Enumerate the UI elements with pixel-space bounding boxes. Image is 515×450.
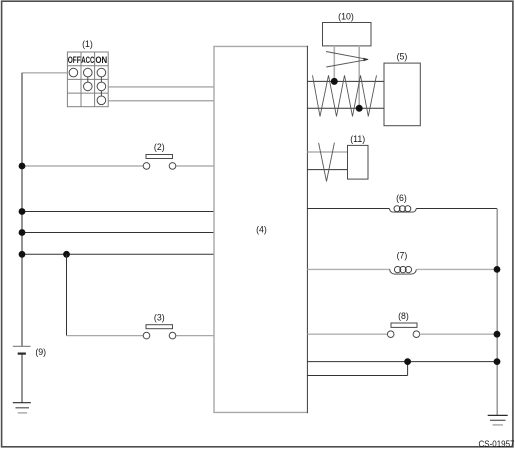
wire bus to unit (4) row 3 — [22, 232, 214, 234]
wire switch (3) to unit (4) — [176, 335, 214, 337]
svg-text:(7): (7) — [397, 251, 408, 261]
blower resistor zigzag element — [313, 75, 377, 116]
junction dot resistor tap 1 — [331, 78, 338, 85]
wire bus to switch (2) — [22, 165, 143, 167]
wire right bus vertical — [496, 209, 498, 416]
junction dot bus row4 — [19, 251, 26, 258]
svg-text:ON: ON — [95, 55, 107, 65]
wire switch (2) to unit (4) — [176, 165, 214, 167]
wire switch (8) to right bus — [420, 333, 497, 335]
wire unit (4) to resistor (11) bottom — [307, 169, 347, 171]
wire branch to switch (3) contact — [67, 335, 144, 337]
thermal fuse zigzag arrow — [326, 52, 368, 68]
ignition switch contact circles — [69, 68, 106, 104]
resistor (11) zigzag V — [319, 143, 335, 182]
svg-text:OFF: OFF — [68, 55, 81, 65]
svg-text:(9): (9) — [35, 347, 46, 357]
wire bus to unit (4) row 4 — [22, 253, 214, 255]
wire unit (4) to blower resistor top — [307, 80, 384, 82]
junction dot resistor tap 2 — [356, 105, 363, 112]
switch SW3 (3) actuator bar — [146, 325, 173, 329]
svg-text:(5): (5) — [397, 52, 408, 62]
wire from ignition switch to left bus — [22, 72, 68, 74]
svg-text:(3): (3) — [154, 313, 165, 323]
switch SW8 (8) contacts — [387, 331, 394, 338]
svg-text:(4): (4) — [256, 225, 267, 235]
junction dot bus row2 — [19, 208, 26, 215]
switch SW8 (8) actuator bar — [391, 323, 417, 327]
junction dot bus lower — [494, 358, 501, 365]
svg-text:(1): (1) — [82, 39, 93, 49]
control unit U1 (4) — [213, 46, 215, 412]
junction dot bus row3 — [19, 229, 26, 236]
switch SW2 (2) contacts — [143, 163, 150, 170]
switch SW3 (3) contacts — [143, 332, 150, 339]
wire unit (4) to blower resistor bottom — [307, 107, 384, 109]
wire unit (4) bottom stub — [307, 375, 407, 377]
wire unit (4) to switch (8) — [307, 333, 387, 335]
wire coil (6) to right bus — [416, 208, 497, 210]
svg-text:(11): (11) — [350, 134, 365, 144]
wire ignition ACC to unit (4) — [108, 86, 214, 88]
battery (9) negative plate — [18, 353, 26, 355]
ignition switch contact connectors — [88, 77, 102, 96]
svg-text:(2): (2) — [154, 142, 165, 152]
svg-text:CS-01957: CS-01957 — [479, 439, 515, 449]
wire unit (4) to resistor (11) top — [307, 151, 347, 153]
resistor box (11) — [348, 145, 369, 179]
relay box (10) — [323, 23, 372, 46]
ignition switch SW1 (1) table grid — [67, 52, 108, 107]
svg-text:(6): (6) — [396, 193, 407, 203]
ground battery — [13, 403, 31, 413]
motor box (5) — [384, 63, 420, 126]
junction dot stub riser — [404, 358, 411, 365]
switch SW2 (2) actuator bar — [146, 155, 173, 159]
svg-text:(8): (8) — [398, 311, 409, 321]
coil L6 (6) — [389, 206, 416, 212]
wire unit (4) lower to right bus — [307, 361, 497, 363]
wire stub riser — [407, 362, 409, 376]
junction dot bus/switch2 — [19, 163, 26, 170]
junction dot branch to switch (3) — [63, 251, 70, 258]
svg-text:(10): (10) — [338, 12, 354, 22]
wire left bus vertical — [21, 73, 23, 346]
battery (9) positive plate — [13, 345, 31, 347]
wire coil (7) to right bus — [416, 268, 497, 270]
coil L7 (7) — [390, 266, 417, 274]
wire relay (10) pin 1 down — [333, 46, 335, 82]
ground right — [488, 415, 508, 425]
wire relay (10) pin 2 down — [358, 46, 360, 108]
wire unit (4) to coil (7) — [307, 268, 389, 270]
junction dot bus switch8 — [494, 331, 501, 338]
ignition switch position labels OFF ACC ON — [68, 55, 108, 65]
svg-text:ACC: ACC — [81, 55, 95, 65]
junction dot bus coil7 — [494, 266, 501, 273]
wire branch down to switch (3) — [66, 254, 68, 335]
wire ignition ON to unit (4) — [108, 100, 214, 102]
wire bus to unit (4) row 2 — [22, 211, 214, 213]
wire unit (4) to coil (6) — [307, 208, 389, 210]
wire battery to ground — [21, 355, 23, 403]
